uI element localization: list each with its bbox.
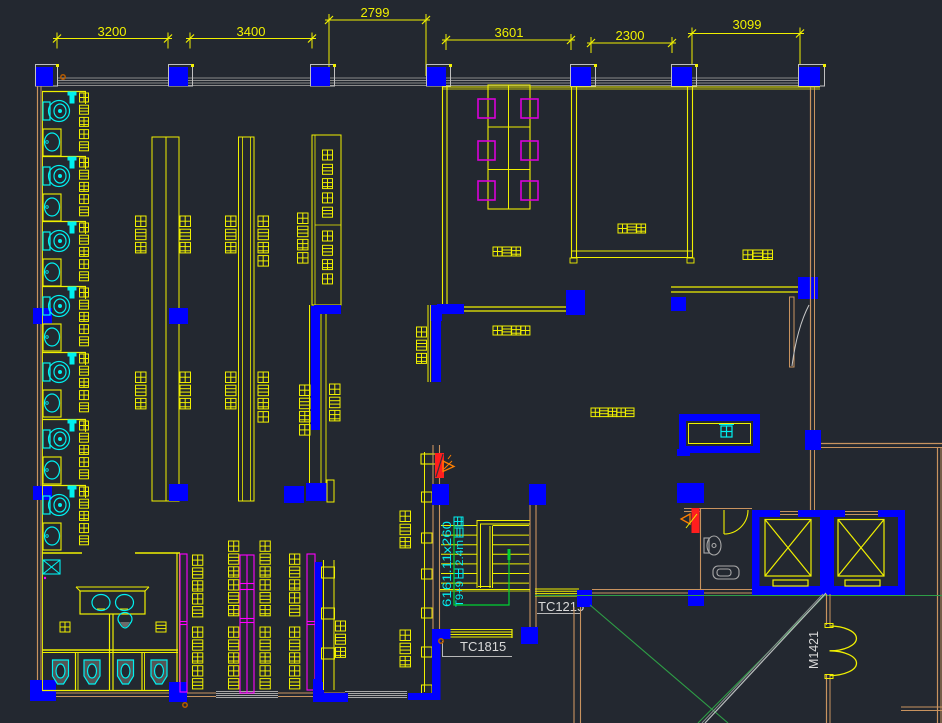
stall toilet <box>118 660 134 684</box>
dimension 3200 <box>53 38 172 40</box>
fire hydrant 1 <box>435 453 444 478</box>
column C4 <box>427 65 451 87</box>
elevator block frame <box>752 510 905 596</box>
label bigboard-area 2 <box>417 327 427 337</box>
floor drain box <box>43 560 60 574</box>
blue display bar C top <box>314 305 341 314</box>
window TC1815 <box>450 629 512 631</box>
elevator car 2 cab <box>838 520 884 587</box>
column rackC bottom <box>306 483 327 501</box>
corner post blue <box>430 305 442 321</box>
label wooddoor-area 3 <box>336 621 346 631</box>
shower symbol bay5 <box>68 353 76 364</box>
toilet bay4 <box>43 296 70 317</box>
urinal <box>118 613 132 629</box>
dimension 3601 <box>442 39 575 41</box>
ramp double line <box>705 593 826 723</box>
entrance door track 2 <box>345 691 407 693</box>
wall elevator-north tan <box>810 450 812 510</box>
wall under bathroom tan <box>592 589 752 591</box>
label women <box>60 622 70 632</box>
label craft showroom <box>493 326 502 335</box>
label woodfloor-area 1b <box>258 372 269 383</box>
wall office bottom <box>571 250 693 252</box>
bigboard rack blue bar <box>437 304 464 314</box>
label bathroom-tile-area bay6 <box>80 421 89 430</box>
column rackB bottom <box>284 486 304 503</box>
stall divider 2 <box>141 652 143 691</box>
bathroom wall tan <box>700 508 702 589</box>
wall right tan <box>810 87 812 430</box>
stall toilet <box>84 660 100 684</box>
restroom side wall right <box>176 553 178 692</box>
column S1 <box>432 484 449 505</box>
svg-text:T9+9: T9+9 <box>454 581 466 607</box>
blue wall bottom-center <box>408 629 451 700</box>
label bigboard-area 1 <box>330 384 341 395</box>
orange survey point 1 <box>61 75 65 79</box>
bay divider wall 7 <box>42 485 86 487</box>
basin 2 <box>116 595 134 611</box>
fire hydrant 2 <box>692 508 700 533</box>
wall top yellow inner <box>442 86 820 88</box>
label design dept <box>493 247 502 256</box>
column rackA bottom <box>169 484 188 501</box>
label men <box>156 622 166 632</box>
wall stair west tan <box>432 445 434 629</box>
toilet bay3 <box>43 231 70 252</box>
label alu swing door col3 <box>260 541 270 551</box>
label alu sliding door col1 <box>193 555 203 565</box>
toilet bay1 <box>43 101 70 122</box>
wall market south <box>671 286 798 288</box>
label sculpture cabinet <box>323 231 333 241</box>
blue corner post 1 <box>169 682 187 702</box>
aluminum sliding-door rack 3 <box>307 554 315 690</box>
toilet bay5 <box>43 362 70 383</box>
stair direction arrow green <box>454 525 509 605</box>
bay divider wall 5 <box>42 352 86 354</box>
dimension 2799 <box>325 19 430 21</box>
stall toilet <box>151 660 167 684</box>
green diagonal B <box>698 594 826 723</box>
column bottom-left <box>30 680 56 701</box>
wooddoor rack frames <box>322 567 335 578</box>
wall M1421 upper <box>826 594 828 625</box>
svg-text:2799: 2799 <box>361 5 390 20</box>
corridor walls tan <box>573 607 575 723</box>
sink bay7 <box>43 523 61 550</box>
TC1815 leader line <box>443 641 513 657</box>
wall bottom-right tan <box>901 706 942 708</box>
bay divider wall 3 <box>42 221 86 223</box>
column left mid2 <box>33 486 52 500</box>
shower symbol bay4 <box>68 287 76 298</box>
label acrylic cabinet <box>323 150 333 160</box>
wall craft-showroom north <box>448 306 566 308</box>
restroom top wall <box>42 552 82 554</box>
label alu swing door col2 <box>229 541 239 551</box>
wall east-exit tan <box>821 443 942 445</box>
sink bay4 <box>43 324 61 351</box>
wall M1421 lower <box>826 675 828 723</box>
bathroom door arc <box>724 510 748 534</box>
blue display bar C <box>311 306 320 430</box>
label bathroom-tile-area bay5 <box>80 354 89 363</box>
svg-text:2.4m: 2.4m <box>454 540 466 566</box>
shower symbol bay1 <box>68 92 76 103</box>
sink bay5 <box>43 390 61 417</box>
shower symbol bay7 <box>68 486 76 497</box>
elevator car 1 cab <box>765 520 811 587</box>
column corridor mid <box>688 590 704 606</box>
chair right <box>521 99 538 118</box>
aluminum swing-door rack 2 <box>240 555 254 693</box>
label wooddoor-area 2 <box>400 630 411 641</box>
restroom center partition <box>109 614 111 691</box>
column D1 <box>566 290 585 315</box>
dimension 3400 <box>186 38 316 40</box>
label tile-area 1c <box>136 372 147 383</box>
elevator door gap 1 <box>780 510 798 517</box>
sink bay2 <box>43 194 61 221</box>
chair left <box>478 99 495 118</box>
chair left <box>478 141 495 160</box>
toilet bay6 <box>43 429 70 450</box>
orange survey point 3 <box>439 639 443 643</box>
green line horizontal <box>535 595 942 597</box>
bay divider wall 1 <box>42 91 86 93</box>
bathroom toilet <box>704 536 721 555</box>
label bathroom-tile-area bay1 <box>80 93 89 102</box>
wooddoor wall rail <box>424 452 426 692</box>
sink bay3 <box>43 259 61 286</box>
bay divider wall 4 <box>42 286 86 288</box>
dimension 3099 <box>688 33 804 35</box>
shower symbol bay3 <box>68 222 76 233</box>
svg-text:6161.11x260: 6161.11x260 <box>442 521 454 607</box>
toilet bay7 <box>43 495 70 516</box>
column E1 <box>805 430 821 450</box>
label electric <box>721 426 732 437</box>
label bathroom-tile-area bay2 <box>80 158 89 167</box>
svg-text:3200: 3200 <box>98 24 127 39</box>
wooddoor rack right rails <box>323 560 325 690</box>
svg-text:M1421: M1421 <box>806 631 821 669</box>
label office <box>618 224 627 233</box>
column TC1215 <box>577 590 592 607</box>
svg-text:3400: 3400 <box>237 24 266 39</box>
column C2 <box>169 65 193 87</box>
column market small <box>671 297 686 311</box>
label tile-area 1a <box>136 216 147 227</box>
door M1421 arcs <box>830 626 857 676</box>
column market right <box>798 277 818 299</box>
column C1 <box>36 65 58 87</box>
bottom wall yellow <box>42 690 180 692</box>
elevator door gap 2 <box>845 510 878 517</box>
column C5 <box>571 65 596 87</box>
label woodfloor-area 1a <box>258 216 269 227</box>
wall design-dept left <box>442 86 444 306</box>
wall office left <box>571 86 573 258</box>
tile rack A <box>152 137 179 501</box>
column C7 <box>799 65 825 87</box>
wall stair east tan <box>529 505 531 627</box>
aluminum sliding-door rack 1 <box>180 554 187 692</box>
entrance door track 1 <box>216 691 278 693</box>
bay divider wall 2 <box>42 156 86 158</box>
stair treads <box>441 525 477 527</box>
svg-text:TC1815: TC1815 <box>460 639 506 654</box>
electric room <box>679 414 760 453</box>
label tile-area 2a <box>226 216 237 227</box>
stair rail U <box>477 521 530 589</box>
dimension 2300 <box>587 42 676 44</box>
svg-text:2300: 2300 <box>616 28 645 43</box>
label tile-area 1b <box>180 216 191 227</box>
shower symbol bay6 <box>68 420 76 431</box>
label alu sliding door col4 <box>290 554 300 564</box>
svg-text:3601: 3601 <box>495 25 524 40</box>
column rackA mid <box>169 308 188 324</box>
tile rack B <box>239 137 255 501</box>
window TC1215 <box>535 588 579 590</box>
label market dept <box>743 250 753 260</box>
elevator car 1 interior <box>760 517 821 586</box>
column TC1815 <box>521 627 538 644</box>
label bathroom-tile-area bay7 <box>80 487 89 496</box>
blue display bar rack3 <box>315 562 322 679</box>
wall office right <box>687 86 689 258</box>
label electric-gift-area <box>591 408 600 417</box>
sink bay1 <box>43 129 61 156</box>
basin 1 <box>92 595 110 611</box>
bay wall inner face <box>42 91 44 690</box>
stair annotation T9+9 platform <box>454 517 466 607</box>
label bathroom-tile-area bay3 <box>80 223 89 232</box>
sink bay6 <box>43 457 61 484</box>
label bathroom-tile-area bay4 <box>80 288 89 297</box>
column C3 <box>311 65 335 87</box>
wood rack C rails <box>309 305 311 501</box>
wall far-right tan <box>937 447 939 723</box>
column S2 <box>529 484 546 505</box>
chair left <box>478 181 495 200</box>
bigboard rack rails <box>427 305 429 382</box>
orange survey point 2 <box>183 703 187 707</box>
column F1 <box>677 483 704 503</box>
svg-text:3099: 3099 <box>733 17 762 32</box>
column left mid1 <box>33 308 52 324</box>
blue corner post 2 <box>314 682 345 702</box>
label tile-area 1d <box>180 372 191 383</box>
label tile-area 2b <box>226 372 237 383</box>
wall left tan <box>37 86 39 700</box>
stall toilet <box>53 660 69 684</box>
wall top multiline <box>57 77 820 79</box>
chair right <box>521 141 538 160</box>
wooddoor frames <box>421 454 440 464</box>
stall wall horizontal <box>42 649 178 651</box>
acrylic cabinet box <box>312 135 341 305</box>
toilet bay2 <box>43 166 70 187</box>
stall divider 1 <box>75 652 77 691</box>
chair right <box>521 181 538 200</box>
elevator car 2 interior <box>834 517 898 586</box>
door leaf right-wall <box>790 297 795 367</box>
bay divider wall 6 <box>42 419 86 421</box>
label woodfloor-area 2b <box>300 385 311 396</box>
meeting table <box>488 85 530 209</box>
bathroom tub <box>713 566 739 579</box>
bottom wall tan <box>56 692 216 694</box>
stair bottom edge <box>440 589 530 591</box>
shower symbol bay2 <box>68 157 76 168</box>
sink counter <box>80 591 145 614</box>
label wooddoor-area 1 <box>400 511 411 522</box>
green diagonal A <box>590 605 728 723</box>
column C6 <box>672 65 697 87</box>
label woodfloor-area 2a <box>298 213 309 224</box>
